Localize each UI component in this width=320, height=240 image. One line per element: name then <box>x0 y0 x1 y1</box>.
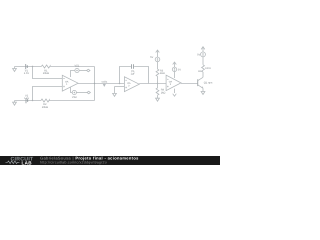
svg-text:VS1: VS1 <box>74 65 79 68</box>
node B junction <box>32 100 33 101</box>
voltage source V5 <box>201 52 206 57</box>
OA1 V- supply wire <box>71 87 73 92</box>
wire R3 to V3 <box>157 62 159 69</box>
node output junction <box>94 83 95 84</box>
node A junction <box>32 66 33 67</box>
wire rail OA2 output <box>139 83 166 85</box>
OA1 V+ supply wire <box>71 71 75 78</box>
power flag down P3 (OA3) <box>173 89 177 97</box>
flag diamond top <box>87 69 90 72</box>
svg-text:1.5V: 1.5V <box>24 97 29 100</box>
wire rail OA3 output to base <box>181 83 198 85</box>
wire right vertical of loop <box>94 67 96 101</box>
svg-text:5V: 5V <box>150 56 153 59</box>
wire OA2 feedback loop <box>120 67 131 84</box>
voltage source V4 <box>172 67 176 71</box>
wire R5 to V5 <box>202 57 204 65</box>
wire minus input drop <box>33 67 63 79</box>
resistor R2 <box>41 99 49 102</box>
ground G5 emitter <box>201 92 205 95</box>
component value labels <box>24 54 213 109</box>
power flag up P1 <box>156 50 160 57</box>
ground G4 divider <box>156 95 160 101</box>
footer bar <box>0 156 220 166</box>
wire collector up <box>202 72 204 77</box>
power flag up P2 (OA3) <box>173 62 177 67</box>
svg-text:1kΩ: 1kΩ <box>161 91 166 94</box>
capacitor C1 <box>132 64 134 68</box>
transistor Q1 <box>198 77 203 88</box>
svg-text:10kΩ: 10kΩ <box>43 72 49 75</box>
battery V1 <box>26 64 28 69</box>
svg-text:1.5V: 1.5V <box>24 72 30 75</box>
flag marker mid-rail <box>103 84 106 87</box>
svg-text:Q1 npn: Q1 npn <box>204 82 213 85</box>
svg-text:100Ω: 100Ω <box>205 67 211 70</box>
resistor R3 <box>156 69 159 76</box>
svg-text:LAB: LAB <box>22 160 33 165</box>
wire OA2 plus input <box>115 86 125 88</box>
voltage source VS2 <box>72 90 76 94</box>
op-amp OA1 <box>62 75 78 91</box>
logo resistor zigzag <box>6 161 20 164</box>
node divider junction <box>157 83 158 84</box>
wire divider up <box>157 76 159 83</box>
svg-text:10kΩ: 10kΩ <box>42 106 48 109</box>
resistor R1 <box>41 65 50 68</box>
wire VS1 to flag <box>79 70 87 72</box>
ground G2 bottom-left <box>13 101 17 106</box>
svg-text:5V: 5V <box>197 54 200 57</box>
flag diamond bottom <box>87 91 90 94</box>
wire top-left net <box>15 66 42 68</box>
voltage source V3 <box>155 57 160 62</box>
op-amp OA3 <box>166 75 181 90</box>
svg-text:saida: saida <box>101 80 107 83</box>
wire plus input drop <box>33 87 63 101</box>
wire rail OA1 output <box>78 83 124 85</box>
node feedback tap <box>119 83 120 84</box>
svg-text:VS2: VS2 <box>72 96 77 99</box>
ground G3 mid <box>113 87 117 97</box>
svg-text:5V: 5V <box>178 68 181 71</box>
resistor R4 <box>156 88 159 95</box>
wire V4 to OA3 <box>174 72 176 79</box>
battery V2 <box>26 98 28 103</box>
ground G1 top-left <box>13 67 17 72</box>
wire feedback top run <box>50 66 94 68</box>
resistor R5 collector <box>202 65 205 72</box>
power flag up P4 <box>201 47 205 52</box>
svg-text:1µF: 1µF <box>131 73 136 76</box>
voltage source VS1 <box>75 68 79 72</box>
wire emitter down <box>202 88 204 91</box>
wire divider down <box>157 84 159 89</box>
op-amp OA2 <box>124 77 139 92</box>
wire VS2 to flag <box>76 92 87 94</box>
svg-text:http://circuitlab.com/c/x2ddqv: http://circuitlab.com/c/x2ddqvn9agr2o <box>40 160 107 164</box>
svg-text:1kΩ: 1kΩ <box>160 72 165 75</box>
wire bottom net <box>15 100 42 102</box>
